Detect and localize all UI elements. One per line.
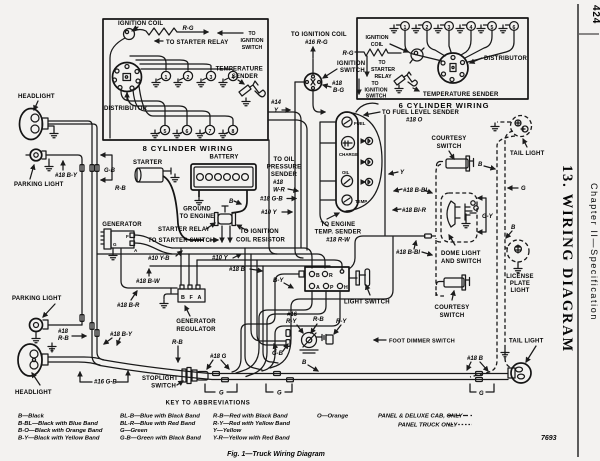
svg-text:B-Y: B-Y (273, 278, 284, 284)
svg-text:SENDER: SENDER (271, 172, 298, 178)
svg-text:PARKING LIGHT: PARKING LIGHT (14, 182, 64, 188)
svg-text:TO: TO (371, 81, 378, 87)
label G bracket 1 (205, 384, 237, 397)
label #18 R-B (lower left) (58, 329, 86, 342)
label TO IGNITION COIL #16 R-G (291, 32, 347, 58)
6 cylinder box frame (357, 18, 528, 99)
spark plug 1 (6cyl) (390, 22, 409, 33)
svg-text:#18 B: #18 B (229, 267, 246, 273)
svg-text:#18: #18 (58, 329, 69, 335)
svg-text:LIGHT: LIGHT (511, 288, 530, 294)
headlight lower (18, 344, 48, 376)
light switch knob (349, 269, 370, 286)
svg-text:R-G: R-G (183, 26, 194, 32)
label tail light bottom (509, 339, 544, 363)
svg-text:RELAY: RELAY (374, 74, 392, 80)
label TO OIL PRESSURE SENDER (267, 157, 302, 194)
label G bracket (tail) (470, 384, 494, 397)
svg-text:STARTER RELAY: STARTER RELAY (158, 227, 210, 233)
svg-text:TO OIL: TO OIL (273, 157, 294, 163)
svg-text:P: P (330, 285, 334, 291)
label #18 B (tail feed) (467, 356, 488, 371)
svg-text:8: 8 (232, 129, 235, 135)
svg-text:F: F (126, 234, 129, 239)
svg-text:IGNITION COIL: IGNITION COIL (118, 21, 163, 27)
generator (101, 222, 142, 253)
label starter relay (158, 223, 215, 233)
spark plug 4 (8cyl) (219, 71, 238, 86)
svg-text:B-O—Black with Orange Band: B-O—Black with Orange Band (18, 428, 103, 434)
svg-text:G—Green: G—Green (120, 428, 148, 434)
svg-text:R-Y: R-Y (286, 319, 297, 325)
label ignition coil (8 cyl) (118, 21, 163, 30)
panel legend (378, 414, 472, 429)
svg-text:#18 O: #18 O (406, 118, 423, 124)
spark plug 3 (6cyl) (434, 22, 453, 33)
temperature sender (6cyl) (394, 72, 417, 93)
ignition coil (6cyl) (410, 48, 424, 63)
wires distributor to plugs 5-8 (121, 86, 233, 125)
svg-text:STARTER: STARTER (371, 67, 395, 73)
svg-text:IGNITION: IGNITION (365, 35, 388, 41)
svg-text:#18 B-W: #18 B-W (136, 279, 161, 285)
svg-text:B: B (181, 295, 185, 301)
svg-text:SWITCH: SWITCH (440, 313, 465, 319)
svg-text:#18 G: #18 G (210, 354, 227, 360)
wire parking light to harness (46, 155, 82, 325)
svg-text:DISTRIBUTOR: DISTRIBUTOR (104, 106, 148, 112)
resistor and R-G feed (6cyl) (343, 49, 402, 57)
wire bundle horizontals (97, 248, 342, 269)
spark plug 1 (8cyl) (152, 71, 171, 86)
svg-text:HEADLIGHT: HEADLIGHT (18, 94, 55, 100)
label distributor (8cyl) (104, 93, 148, 112)
svg-text:B: B (229, 199, 234, 205)
sidebar chapter (589, 183, 599, 321)
label #14 Y outside box (271, 100, 290, 114)
label B-Y (center) (273, 278, 293, 288)
label temperature sender (6cyl) (413, 88, 499, 98)
tail light top (dashed) (511, 116, 532, 137)
svg-text:#16: #16 (287, 312, 298, 318)
svg-text:KEY TO ABBREVIATIONS: KEY TO ABBREVIATIONS (166, 401, 251, 407)
svg-text:#18 B-Bl: #18 B-Bl (396, 250, 420, 256)
label ignition coil (6cyl) (365, 35, 408, 52)
oil gauge (341, 170, 352, 187)
svg-text:R: R (329, 273, 333, 279)
spark plug 2 (6cyl) (412, 22, 431, 33)
svg-text:SWITCH: SWITCH (151, 384, 176, 390)
page number 424 (579, 5, 600, 34)
courtesy switch 2 (437, 275, 470, 290)
svg-text:G: G (479, 391, 484, 397)
figure number 7693 (541, 435, 557, 442)
label ignition switch (323, 61, 365, 78)
svg-text:O—Orange: O—Orange (317, 414, 349, 420)
svg-text:B—Black: B—Black (18, 414, 45, 420)
svg-text:1: 1 (165, 75, 168, 81)
figure caption (227, 451, 325, 458)
svg-text:TO IGNITION COIL: TO IGNITION COIL (291, 32, 347, 38)
svg-text:BL-R—Blue with Red Band: BL-R—Blue with Red Band (120, 421, 196, 427)
wire light switch drops (245, 248, 286, 370)
label #16 G-B bracket (80, 371, 128, 386)
svg-text:B: B (316, 273, 320, 279)
label 6 CYLINDER WIRING (399, 101, 490, 110)
label to ignition coil resistor (236, 225, 286, 244)
svg-text:R-Y: R-Y (336, 319, 347, 325)
label #18 B-G (323, 81, 344, 94)
svg-text:7693: 7693 (541, 435, 557, 442)
svg-text:REGULATOR: REGULATOR (176, 327, 216, 333)
label TO ENGINE TEMP SENDER (315, 213, 362, 244)
svg-text:AND SWITCH: AND SWITCH (441, 259, 481, 265)
spark plug 8 (8cyl) (219, 125, 238, 137)
svg-text:TEMP: TEMP (355, 199, 367, 204)
svg-text:G-B—Green with Black Band: G-B—Green with Black Band (120, 436, 201, 442)
svg-text:8 CYLINDER WIRING: 8 CYLINDER WIRING (143, 144, 234, 153)
svg-text:#14: #14 (271, 100, 282, 106)
svg-text:R-Y—Red with Yellow Band: R-Y—Red with Yellow Band (213, 421, 290, 427)
spark plug 3 (8cyl) (197, 71, 216, 86)
svg-text:G-Y: G-Y (482, 214, 494, 220)
label B (right riser) (478, 162, 495, 169)
dashed risers right (470, 131, 515, 377)
svg-text:#18 B-Y: #18 B-Y (55, 173, 78, 179)
svg-text:HEADLIGHT: HEADLIGHT (15, 390, 52, 396)
svg-text:TO FUEL LEVEL SENDER: TO FUEL LEVEL SENDER (382, 110, 459, 116)
svg-text:#18 B-R: #18 B-R (117, 303, 140, 309)
wires light switch bottom (232, 274, 340, 377)
svg-text:SWITCH: SWITCH (366, 94, 387, 100)
label B (second) (506, 225, 516, 238)
svg-text:Y—Yellow: Y—Yellow (213, 428, 242, 434)
svg-text:BATTERY: BATTERY (209, 155, 238, 161)
label B (below dimmer) (302, 360, 318, 371)
cluster housing (336, 112, 382, 212)
headlight upper (18, 94, 55, 140)
svg-text:#16 G-B: #16 G-B (94, 380, 117, 386)
generator ground (109, 248, 117, 260)
svg-text:R-G: R-G (343, 51, 354, 57)
battery ground post (180, 190, 215, 220)
svg-text:G-B: G-B (272, 351, 284, 357)
connectors on left harness (80, 165, 99, 337)
label distributor (6cyl) (470, 56, 528, 63)
svg-text:R-B: R-B (115, 186, 126, 192)
label courtesy switch 2 (435, 291, 470, 319)
dome ground (462, 214, 470, 228)
ignition coil (8 cyl) (110, 28, 135, 138)
charge gauge (339, 137, 358, 158)
svg-text:#18: #18 (332, 81, 343, 87)
svg-text:STARTER: STARTER (133, 160, 163, 166)
svg-text:A: A (198, 295, 202, 301)
svg-text:COIL RESISTOR: COIL RESISTOR (236, 238, 286, 244)
temp gauge (342, 195, 367, 205)
label courtesy switch 1 (432, 136, 467, 159)
svg-text:TO STARTER RELAY: TO STARTER RELAY (166, 40, 228, 46)
svg-text:2: 2 (187, 75, 190, 81)
tail light top ground (491, 122, 511, 131)
label G-B (dimmer) (272, 344, 288, 357)
svg-text:R-B: R-B (172, 340, 183, 346)
svg-text:B-BL—Black with Blue Band: B-BL—Black with Blue Band (18, 421, 98, 427)
label dome light and switch (441, 235, 481, 265)
svg-text:TEMPERATURE: TEMPERATURE (216, 67, 263, 73)
svg-text:#16 R-G: #16 R-G (305, 40, 328, 46)
svg-text:PLATE: PLATE (510, 281, 530, 287)
wires generator to regulator (121, 235, 197, 293)
key column 1 (18, 414, 103, 442)
svg-text:#18 R-W: #18 R-W (326, 238, 351, 244)
connectors on bus (213, 372, 483, 382)
tail light bottom ground (501, 349, 509, 359)
spark plug 4 (6cyl) (456, 22, 475, 33)
parking light lower (12, 296, 82, 343)
label #18 B-W (136, 269, 161, 285)
svg-text:SWITCH: SWITCH (340, 68, 365, 74)
svg-text:7: 7 (209, 129, 212, 135)
wire dome light feed (349, 234, 431, 269)
regulator ground (160, 294, 178, 308)
svg-text:3: 3 (210, 75, 213, 81)
label #10 Y-B (148, 251, 182, 262)
light switch box (299, 267, 349, 291)
svg-text:#18 B: #18 B (467, 356, 484, 362)
starter (133, 160, 179, 182)
indicator bulb 3 (362, 178, 373, 185)
sidebar rule (577, 4, 579, 457)
dome light dashed enclosure (436, 193, 477, 296)
key heading (166, 401, 251, 407)
dashed riser to courtesy switch 1 (432, 164, 442, 236)
svg-text:#18: #18 (273, 180, 284, 186)
headlight lower ground (48, 343, 56, 352)
label #18 B (center) (229, 267, 262, 273)
svg-text:TAIL LIGHT: TAIL LIGHT (509, 339, 544, 345)
cluster feed stubs (320, 122, 336, 226)
svg-text:B: B (478, 162, 483, 168)
svg-text:W-R: W-R (273, 188, 285, 194)
label license plate light (506, 274, 533, 294)
label #18 B-Bl (dome feed) (396, 241, 432, 256)
label TO IGNITION SWITCH (6cyl) (359, 79, 388, 100)
label R-B (left) (115, 186, 126, 192)
wire cluster top to fuel sender (356, 103, 378, 112)
label TO FUEL LEVEL SENDER (364, 110, 459, 124)
wire cluster right verticals (270, 115, 393, 368)
label temperature sender (8cyl) (216, 67, 263, 85)
distributor (8 cyl) (113, 63, 142, 92)
battery feed to starter relay (229, 190, 247, 213)
svg-text:#18 Bl-R: #18 Bl-R (402, 208, 427, 214)
svg-text:5: 5 (164, 129, 167, 135)
svg-text:TO ENGINE: TO ENGINE (180, 214, 215, 220)
svg-text:G: G (219, 391, 224, 397)
spark plug 6 (8cyl) (173, 125, 192, 137)
key column 3 (213, 414, 290, 442)
svg-text:Fig. 1—Truck Wiring Diagram: Fig. 1—Truck Wiring Diagram (227, 451, 325, 458)
svg-text:SWITCH: SWITCH (242, 45, 263, 51)
svg-text:DOME LIGHT: DOME LIGHT (441, 251, 481, 257)
wires distributor to plugs 1-4 (130, 56, 233, 71)
svg-text:DISTRIBUTOR: DISTRIBUTOR (484, 56, 528, 62)
svg-text:PARKING LIGHT: PARKING LIGHT (12, 296, 62, 302)
main bottom bus wires (48, 357, 508, 380)
label tail light top (510, 139, 545, 157)
svg-text:GENERATOR: GENERATOR (176, 319, 216, 325)
svg-text:TEMP. SENDER: TEMP. SENDER (315, 230, 362, 236)
label light switch (344, 285, 390, 306)
svg-text:COURTESY: COURTESY (435, 305, 470, 311)
label Y right of cluster (389, 170, 405, 176)
svg-text:IGNITION: IGNITION (337, 61, 365, 67)
label TO STARTER RELAY (8cyl) with arrow (155, 40, 228, 46)
svg-text:G: G (521, 186, 526, 192)
indicator bulb 1 (362, 137, 373, 144)
spark plug 2 (8cyl) (174, 71, 193, 86)
svg-text:LIGHT SWITCH: LIGHT SWITCH (344, 300, 390, 306)
distributor (6cyl) (438, 53, 468, 83)
svg-text:G: G (113, 242, 117, 247)
svg-text:FOOT DIMMER SWITCH: FOOT DIMMER SWITCH (389, 339, 455, 345)
svg-text:B-Y—Black with Yellow Band: B-Y—Black with Yellow Band (18, 436, 100, 442)
label #18 B-Bl (cluster right) (394, 188, 432, 194)
label G-Y bracket (478, 198, 494, 232)
spark plug 5 (8cyl) (151, 125, 170, 137)
svg-text:Chapter II—Specification: Chapter II—Specification (589, 183, 599, 321)
parking light upper (26, 149, 46, 161)
wire ignition switch drop (268, 82, 307, 258)
label #18 G-B (center) (260, 197, 296, 203)
svg-text:H: H (344, 285, 348, 291)
parking light upper ground (45, 159, 53, 171)
fuel gauge (342, 117, 366, 127)
spark plug 7 (8cyl) (196, 125, 215, 137)
label stoplight switch (142, 376, 183, 390)
headlight lower label (15, 373, 52, 396)
label #18 B-Y (lower) (104, 332, 133, 345)
label #10 Y (center) (212, 254, 241, 262)
svg-text:LICENSE: LICENSE (506, 274, 533, 280)
svg-text:SWITCH: SWITCH (437, 144, 462, 150)
wires plugs to distributor (6cyl) (405, 30, 514, 62)
svg-text:Y-R—Yellow with Red Band: Y-R—Yellow with Red Band (213, 436, 290, 442)
8 cylinder box frame (103, 19, 268, 140)
wire ignition switch stem (295, 59, 325, 112)
label R-G (183, 26, 194, 32)
dashed license stub (505, 247, 508, 249)
stoplight switch (182, 368, 208, 384)
svg-text:COIL: COIL (371, 42, 384, 48)
label #18 B-R (generator) (117, 291, 140, 309)
svg-text:IGNITION: IGNITION (240, 38, 263, 44)
label G (right riser) (508, 186, 526, 192)
svg-text:G: G (277, 391, 282, 397)
label foot dimmer switch (374, 339, 455, 345)
ignition switch (304, 73, 321, 90)
svg-text:TO: TO (378, 60, 385, 66)
indicator bulb 2 (362, 158, 373, 165)
svg-text:GROUND: GROUND (183, 207, 211, 213)
svg-text:STOPLIGHT: STOPLIGHT (142, 376, 178, 382)
license plate light (507, 240, 529, 273)
svg-text:6 CYLINDER WIRING: 6 CYLINDER WIRING (399, 101, 490, 110)
label G bracket 2 (266, 384, 292, 397)
svg-text:TO: TO (248, 31, 255, 37)
generator regulator box B F A (178, 285, 205, 302)
starter relay (215, 206, 236, 242)
label R-B (bus left) (172, 340, 183, 362)
label to starter switch (148, 238, 218, 244)
label #10 Y (upper) (261, 210, 292, 216)
svg-text:B: B (511, 225, 516, 231)
svg-text:R-B—Red with Black Band: R-B—Red with Black Band (213, 414, 288, 420)
key column 2 (120, 414, 201, 442)
svg-text:G-B: G-B (104, 168, 116, 174)
svg-text:13. WIRING DIAGRAM: 13. WIRING DIAGRAM (559, 165, 575, 353)
key column 4 (317, 414, 349, 420)
spark plug 5 (6cyl) (477, 22, 496, 33)
resistor R-G wire (8 cyl) (134, 28, 243, 35)
svg-text:#18 B-Y: #18 B-Y (110, 332, 133, 338)
G-B bracket label (101, 155, 116, 180)
label R-B (center) (311, 317, 324, 333)
label R-Y (center) (334, 319, 347, 334)
label TO IGNITION SWITCH (8cyl) (240, 31, 263, 51)
svg-text:COURTESY: COURTESY (432, 136, 467, 142)
svg-text:R-B: R-B (313, 317, 324, 323)
spark plug 6 (6cyl) (499, 22, 518, 33)
svg-text:PRESSURE: PRESSURE (267, 165, 302, 171)
tail light bottom (508, 363, 531, 383)
svg-text:B-G: B-G (333, 88, 344, 94)
svg-text:A: A (316, 285, 320, 291)
label #18 Bl-R (393, 208, 427, 214)
wires headlight upper to harness (48, 121, 104, 365)
label 8 CYLINDER WIRING (143, 144, 234, 153)
svg-text:TEMPERATURE SENDER: TEMPERATURE SENDER (423, 92, 499, 98)
label generator regulator (176, 306, 216, 333)
svg-text:R-B: R-B (58, 336, 69, 342)
dome light symbol (447, 201, 478, 227)
svg-text:#18 G-B: #18 G-B (260, 197, 283, 203)
temperature sender (8cyl) (239, 81, 265, 106)
svg-text:PANEL & DELUXE CAB, ONLY: PANEL & DELUXE CAB, ONLY (378, 414, 464, 420)
svg-text:GENERATOR: GENERATOR (102, 222, 142, 228)
svg-text:SENDER: SENDER (232, 74, 259, 80)
label TO STARTER RELAY (6cyl) (367, 56, 395, 80)
battery (191, 155, 256, 191)
label #18 G with arrows (207, 354, 229, 369)
svg-text:B: B (302, 360, 307, 366)
svg-text:CHARGE: CHARGE (339, 152, 358, 157)
svg-text:6: 6 (186, 129, 189, 135)
courtesy switch 1 (437, 156, 474, 171)
label parking light upper (14, 165, 64, 188)
label #18 B-Y (upper) (55, 161, 78, 179)
svg-text:FUEL: FUEL (354, 121, 366, 126)
svg-text:PANEL TRUCK ONLY: PANEL TRUCK ONLY (398, 423, 458, 429)
svg-text:TAIL LIGHT: TAIL LIGHT (510, 151, 545, 157)
starter cable to relay (163, 176, 204, 240)
svg-text:BL-B—Blue with Black Band: BL-B—Blue with Black Band (120, 414, 200, 420)
svg-text:424: 424 (590, 5, 600, 24)
foot dimmer switch (286, 330, 333, 353)
svg-text:OIL: OIL (342, 170, 350, 175)
label #16 R-Y (286, 312, 303, 333)
